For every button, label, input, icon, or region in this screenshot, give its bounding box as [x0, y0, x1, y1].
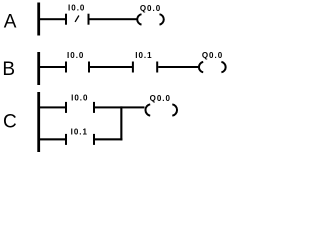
wire contact I0.0 to coil (rung C top branch) — [95, 106, 145, 108]
wire contact to coil (rung A) — [90, 18, 137, 20]
svg-text:A: A — [4, 12, 17, 33]
svg-text:I0.1: I0.1 — [71, 128, 88, 137]
power rail (rung C) — [37, 92, 40, 152]
wire rail to contact I0.0 (rung B) — [40, 66, 66, 68]
wire rail to contact I0.0 (rung C top branch) — [40, 106, 66, 108]
coil Q0.0 right paren (rung B) — [221, 62, 225, 72]
NO contact I0.1 left bar (rung B) — [132, 62, 134, 73]
power rail (rung A) — [37, 3, 40, 36]
svg-text:C: C — [3, 112, 17, 133]
NO contact I0.1 left bar (rung C) — [65, 134, 67, 145]
coil Q0.0 left paren (rung A) — [137, 14, 141, 24]
wire contact I0.1 to coil (rung B) — [158, 66, 198, 68]
NO contact I0.0 left bar (rung C) — [65, 102, 67, 113]
NO contact I0.0 right bar (rung B) — [88, 62, 90, 73]
NO contact I0.1 right bar (rung C) — [93, 134, 95, 145]
svg-text:Q0.0: Q0.0 — [140, 4, 161, 13]
vertical branch wire (rung C) — [120, 106, 122, 140]
NO contact I0.1 right bar (rung B) — [156, 62, 158, 73]
coil Q0.0 right paren (rung A) — [160, 14, 164, 24]
NC contact I0.0 left bar (rung A) — [65, 14, 67, 25]
NC contact I0.0 slash (rung A) — [75, 16, 79, 22]
svg-text:I0.1: I0.1 — [135, 51, 152, 60]
wire contact I0.1 to branch junction (rung C bottom branch) — [95, 138, 122, 140]
svg-text:I0.0: I0.0 — [68, 4, 85, 13]
svg-text:I0.0: I0.0 — [67, 51, 84, 60]
wire rail to contact I0.1 (rung C bottom branch) — [40, 138, 66, 140]
svg-text:I0.0: I0.0 — [71, 94, 88, 103]
wire rail to contact I0.0 (rung A) — [40, 18, 66, 20]
wire between contacts (rung B) — [90, 66, 132, 68]
NO contact I0.0 right bar (rung C) — [93, 102, 95, 113]
svg-text:Q0.0: Q0.0 — [202, 51, 223, 60]
svg-text:Q0.0: Q0.0 — [150, 94, 171, 103]
coil Q0.0 left paren (rung C) — [145, 104, 150, 115]
NO contact I0.0 left bar (rung B) — [65, 62, 67, 73]
coil Q0.0 right paren (rung C) — [172, 104, 177, 115]
coil Q0.0 left paren (rung B) — [199, 62, 203, 72]
power rail (rung B) — [37, 52, 40, 85]
svg-text:B: B — [2, 59, 15, 80]
NC contact I0.0 right bar (rung A) — [88, 14, 90, 25]
